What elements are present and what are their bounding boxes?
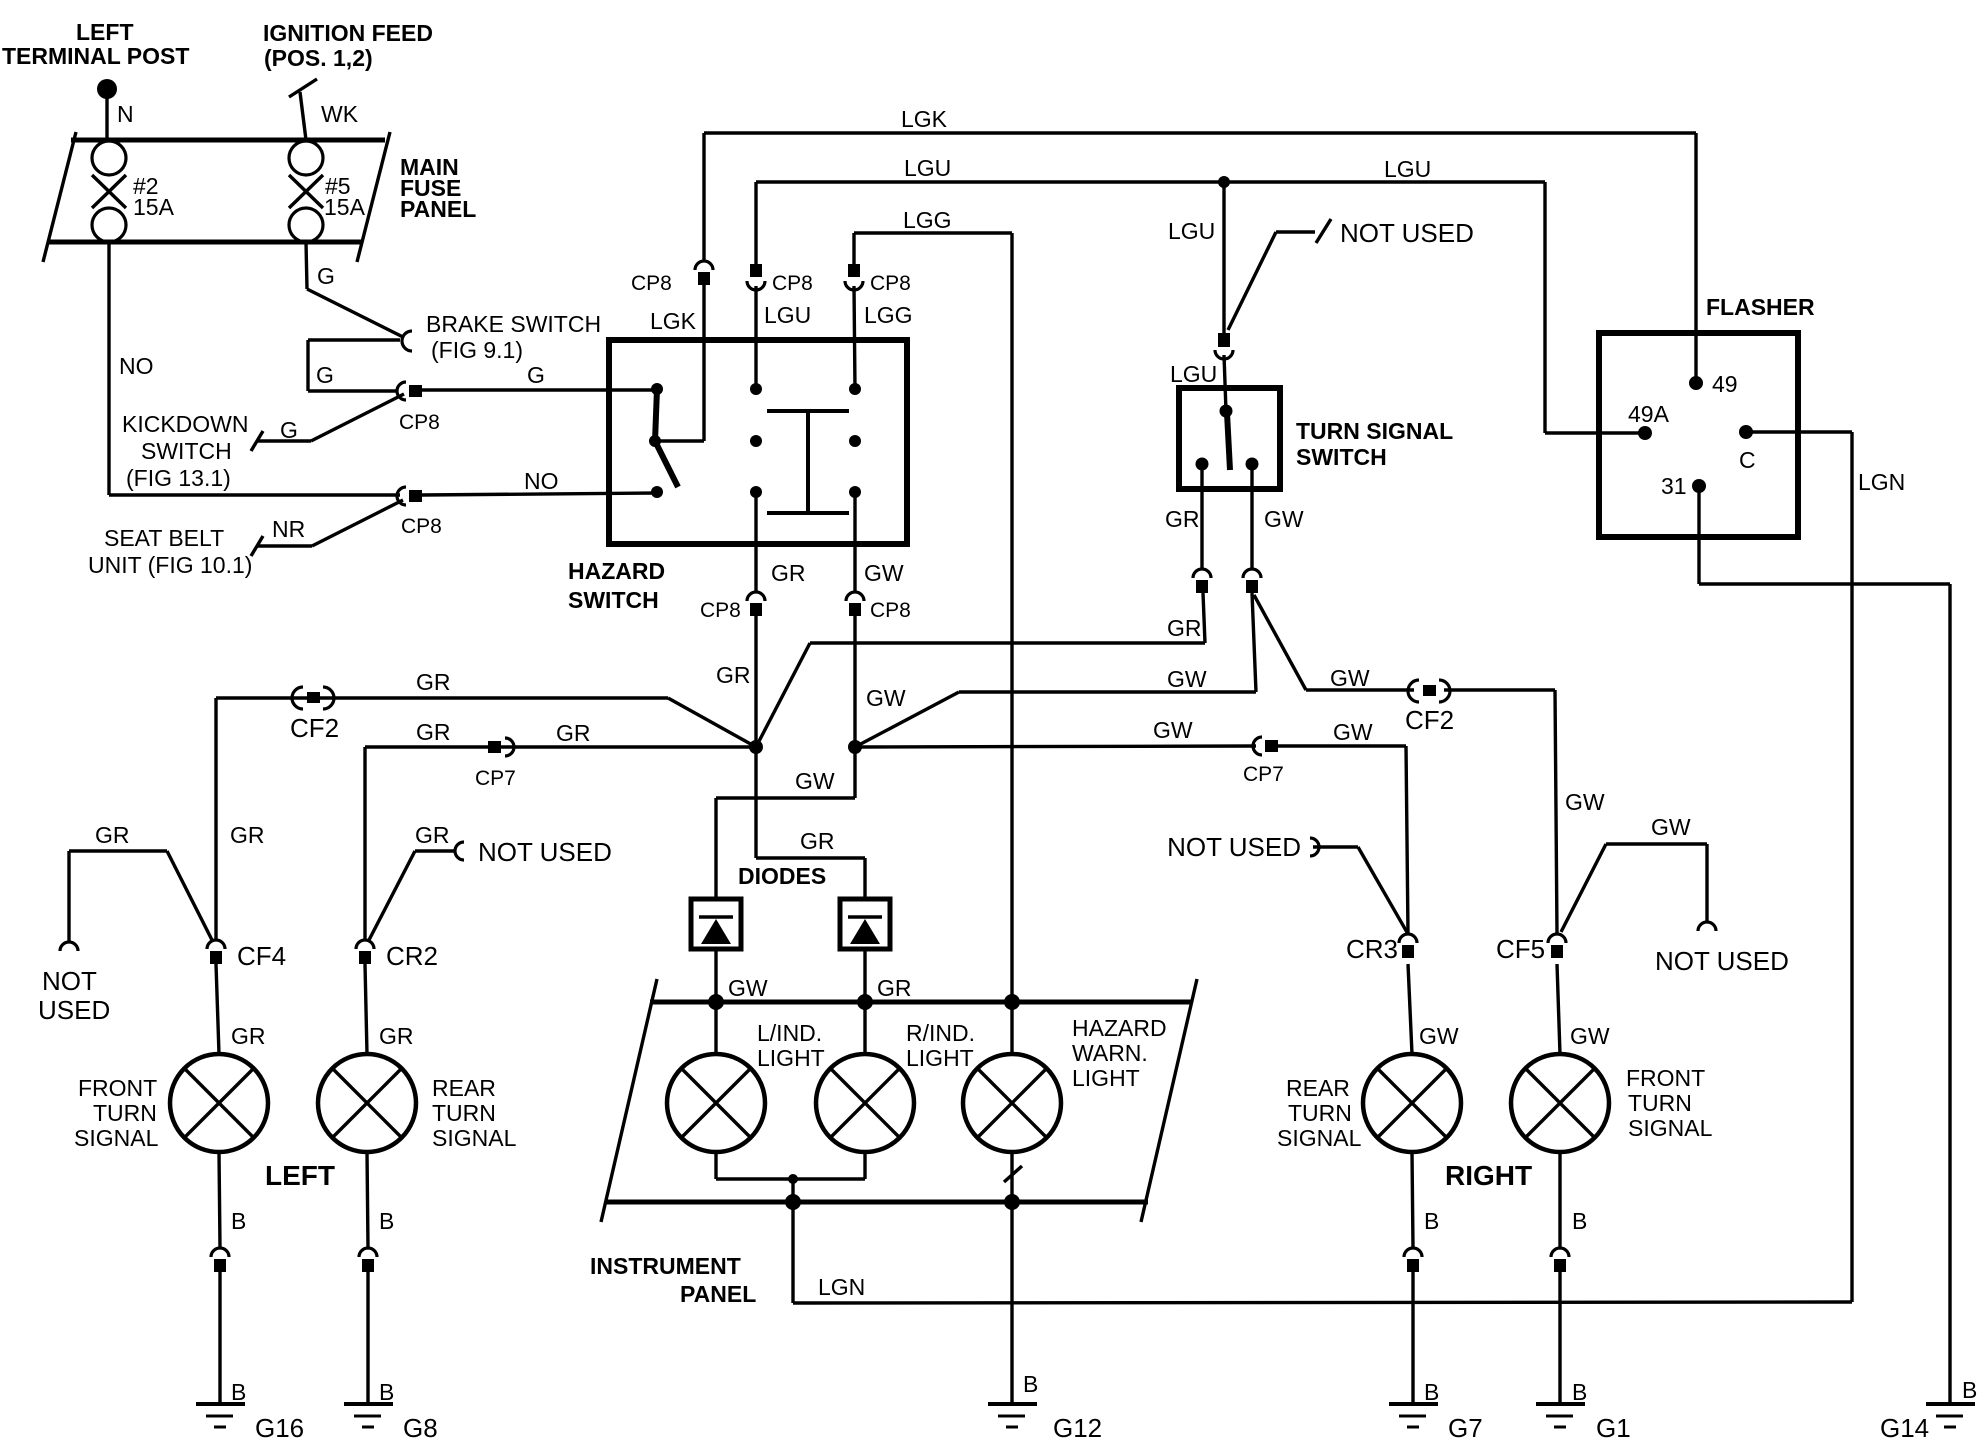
svg-text:TERMINAL POST: TERMINAL POST xyxy=(2,43,189,69)
svg-text:LGG: LGG xyxy=(864,302,913,328)
svg-text:B: B xyxy=(1572,1379,1587,1405)
wire NO from fuse 2 xyxy=(109,242,400,495)
connector CF5 xyxy=(1496,934,1566,964)
svg-text:15A: 15A xyxy=(133,194,175,220)
svg-text:GW: GW xyxy=(1264,506,1304,532)
wire GW CR3 to right rear lamp xyxy=(1408,964,1412,1054)
svg-text:GR: GR xyxy=(716,662,751,688)
wire LGN panel to flasher C xyxy=(793,1202,1852,1303)
hazard switch box xyxy=(609,340,907,544)
svg-text:15A: 15A xyxy=(324,194,366,220)
fuse #2 15A xyxy=(92,141,175,242)
svg-text:GW: GW xyxy=(728,975,768,1001)
svg-text:CP7: CP7 xyxy=(1243,763,1284,786)
wire B to ground G7 xyxy=(1411,1272,1414,1404)
svg-text:B: B xyxy=(1572,1208,1587,1234)
connector CP8 on LGK xyxy=(631,261,713,295)
svg-text:PANEL: PANEL xyxy=(400,196,476,222)
connector on right front B xyxy=(1551,1248,1569,1272)
svg-text:B: B xyxy=(1962,1377,1977,1403)
wire B to ground G8 xyxy=(366,1272,369,1404)
left terminal post xyxy=(97,79,117,99)
hazard switch contacts right column xyxy=(849,383,861,498)
svg-text:NOT USED: NOT USED xyxy=(478,837,612,867)
svg-text:CR2: CR2 xyxy=(386,941,438,971)
ground G12 xyxy=(988,1404,1102,1440)
wire LGU into turn signal switch xyxy=(1224,355,1226,411)
svg-text:CP8: CP8 xyxy=(700,599,741,622)
MAIN FUSE PANEL label xyxy=(400,154,476,222)
svg-text:UNIT (FIG 10.1): UNIT (FIG 10.1) xyxy=(88,552,252,578)
svg-text:SIGNAL: SIGNAL xyxy=(1277,1125,1362,1151)
INSTRUMENT PANEL label xyxy=(590,1253,756,1307)
svg-text:FRONT: FRONT xyxy=(78,1075,157,1101)
wire LGU drop to turn signal switch xyxy=(1222,182,1225,333)
wire B right rear lamp down xyxy=(1412,1152,1413,1248)
lamp right rear turn signal xyxy=(1363,1054,1461,1152)
node LGG at panel xyxy=(1004,994,1020,1010)
wire GW turn signal branch right to CF2 xyxy=(1254,595,1414,690)
svg-text:LEFT: LEFT xyxy=(265,1160,335,1191)
svg-text:FRONT: FRONT xyxy=(1626,1065,1705,1091)
svg-text:GR: GR xyxy=(877,975,912,1001)
svg-text:FLASHER: FLASHER xyxy=(1706,294,1815,320)
svg-text:NO: NO xyxy=(119,353,154,379)
wire GR CP7 to rear lamp drop xyxy=(365,745,488,748)
wire B to ground G16 xyxy=(218,1272,221,1404)
lamp right front turn signal xyxy=(1511,1054,1609,1152)
kickdown switch stub xyxy=(251,394,404,451)
svg-text:CP7: CP7 xyxy=(475,767,516,790)
svg-text:CF2: CF2 xyxy=(290,713,339,743)
svg-text:CP8: CP8 xyxy=(399,411,440,434)
svg-text:LIGHT: LIGHT xyxy=(906,1045,974,1071)
svg-text:N: N xyxy=(117,101,134,127)
svg-text:LEFT: LEFT xyxy=(76,19,134,45)
turn signal NOT USED stub xyxy=(1228,218,1474,330)
TURN SIGNAL SWITCH label xyxy=(1296,418,1453,470)
wire GW diode 1 to panel xyxy=(714,949,717,1002)
wire GW to junction xyxy=(853,616,856,747)
node LGU junction xyxy=(1218,176,1230,188)
svg-text:B: B xyxy=(379,1379,394,1405)
svg-text:GW: GW xyxy=(1419,1023,1459,1049)
svg-text:GW: GW xyxy=(1153,717,1193,743)
svg-text:NOT USED: NOT USED xyxy=(1167,832,1301,862)
wire GW CF5 to right front lamp xyxy=(1557,964,1560,1054)
svg-text:CP8: CP8 xyxy=(401,515,442,538)
svg-text:GR: GR xyxy=(230,822,265,848)
svg-text:G: G xyxy=(527,362,545,388)
svg-text:NO: NO xyxy=(524,468,559,494)
svg-text:NOT USED: NOT USED xyxy=(1340,218,1474,248)
wire B left rear lamp down xyxy=(367,1152,368,1248)
connector CP8 on hazard GR xyxy=(700,592,765,622)
wire hazard lamp to panel edge xyxy=(1004,1152,1022,1202)
connector CR2 xyxy=(356,940,438,971)
svg-text:GR: GR xyxy=(231,1023,266,1049)
svg-text:LGK: LGK xyxy=(901,106,948,132)
svg-text:B: B xyxy=(1023,1371,1038,1397)
svg-text:GR: GR xyxy=(95,822,130,848)
wire GR CR2 to left rear lamp xyxy=(365,964,367,1054)
svg-text:GR: GR xyxy=(415,822,450,848)
svg-text:CF4: CF4 xyxy=(237,941,286,971)
wire N terminal post to fuse panel xyxy=(105,97,108,140)
turn signal switch box xyxy=(1179,388,1280,489)
svg-text:G: G xyxy=(316,362,334,388)
svg-text:B: B xyxy=(231,1379,246,1405)
svg-text:LIGHT: LIGHT xyxy=(1072,1065,1140,1091)
wire GR to left CF2 xyxy=(216,698,756,747)
wire LGK top bus xyxy=(704,133,1696,261)
CR3 NOT USED stub xyxy=(1167,832,1408,934)
wire GW turn signal branch left xyxy=(855,593,1256,747)
svg-text:SIGNAL: SIGNAL xyxy=(74,1125,159,1151)
svg-text:SIGNAL: SIGNAL xyxy=(1628,1115,1713,1141)
connector CP8 on hazard GW xyxy=(846,592,911,622)
ground G14 xyxy=(1880,1404,1975,1440)
svg-text:SWITCH: SWITCH xyxy=(568,587,659,613)
svg-text:GR: GR xyxy=(1167,615,1202,641)
FRONT TURN SIGNAL label xyxy=(74,1075,159,1151)
fuse #5 15A xyxy=(289,141,366,242)
flasher pin 49 xyxy=(1689,133,1738,397)
svg-text:G7: G7 xyxy=(1448,1413,1483,1440)
svg-text:GW: GW xyxy=(1651,814,1691,840)
wire LGU top bus xyxy=(756,180,1545,183)
SEAT BELT UNIT label xyxy=(88,525,252,578)
REAR TURN SIGNAL label xyxy=(1277,1075,1362,1151)
lamp left front turn signal xyxy=(170,1054,268,1152)
connector CP7 right xyxy=(1243,737,1284,786)
svg-text:GR: GR xyxy=(379,1023,414,1049)
svg-text:GR: GR xyxy=(800,828,835,854)
svg-text:IGNITION FEED: IGNITION FEED xyxy=(263,20,433,46)
wire LGN from flasher C xyxy=(1746,432,1852,1302)
svg-text:CP8: CP8 xyxy=(870,272,911,295)
wire B to ground G1 xyxy=(1558,1272,1561,1404)
hazard switch actuator I-bar xyxy=(767,411,849,513)
svg-text:GR: GR xyxy=(771,560,806,586)
turn signal switch contacts and lever xyxy=(1196,405,1259,471)
wire LGU drop to hazard xyxy=(754,182,757,266)
svg-text:B: B xyxy=(1424,1379,1439,1405)
svg-text:NOT: NOT xyxy=(42,966,97,996)
lamp left rear turn signal xyxy=(318,1054,416,1152)
brake switch connector stub xyxy=(402,331,412,351)
wire B left front lamp down xyxy=(219,1152,220,1248)
svg-text:G: G xyxy=(280,417,298,443)
svg-text:GW: GW xyxy=(864,560,904,586)
svg-text:G: G xyxy=(317,263,335,289)
svg-text:G16: G16 xyxy=(255,1413,304,1440)
svg-text:GW: GW xyxy=(1565,789,1605,815)
wire GR drop to CR2 xyxy=(363,747,366,940)
wire GW from turn signal switch xyxy=(1250,464,1253,569)
wire G loop brake to CP8 xyxy=(308,340,400,391)
svg-text:CP8: CP8 xyxy=(870,599,911,622)
svg-text:LGU: LGU xyxy=(1168,218,1215,244)
wire GR drop to CF4 xyxy=(214,698,217,940)
node hazard ground at panel edge xyxy=(1004,1194,1020,1210)
wire GW junction to right CP7 xyxy=(855,746,1256,747)
node GR at panel xyxy=(857,994,873,1010)
svg-text:SIGNAL: SIGNAL xyxy=(432,1125,517,1151)
svg-text:BRAKE SWITCH: BRAKE SWITCH xyxy=(426,311,601,337)
svg-text:(FIG 9.1): (FIG 9.1) xyxy=(431,337,523,363)
svg-text:GW: GW xyxy=(1330,665,1370,691)
svg-text:CF2: CF2 xyxy=(1405,705,1454,735)
connector CP8 on LGU xyxy=(747,264,813,295)
wire GW hazard output xyxy=(853,492,856,592)
svg-text:GR: GR xyxy=(416,719,451,745)
connector CF4 xyxy=(207,940,286,971)
connector CP8 on G wire xyxy=(397,382,440,434)
wire LGG into hazard switch xyxy=(854,286,855,389)
wire GW junction down to diode 1 xyxy=(716,747,855,899)
lamp R/IND light xyxy=(816,1002,975,1152)
svg-text:REAR: REAR xyxy=(432,1075,496,1101)
diode D1 xyxy=(691,899,741,949)
BRAKE SWITCH label xyxy=(426,311,601,363)
connector CF2 left xyxy=(290,687,339,743)
wire indicator lamps to panel ground bus xyxy=(716,1152,865,1202)
lamp hazard warning light xyxy=(963,1002,1167,1152)
flasher pin 31 xyxy=(1661,473,1706,499)
wire G to hazard switch xyxy=(422,388,657,391)
wire B panel to ground G12 xyxy=(1010,1202,1013,1404)
svg-text:SWITCH: SWITCH xyxy=(141,438,232,464)
main fuse panel outline xyxy=(43,132,390,262)
wire GW CP7 to CR3 drop xyxy=(1278,746,1408,934)
wire from flasher 31 to G14 xyxy=(1699,486,1950,1404)
svg-text:CR3: CR3 xyxy=(1346,934,1398,964)
diode D2 xyxy=(840,899,890,949)
svg-text:HAZARD: HAZARD xyxy=(1072,1015,1167,1041)
svg-text:LGU: LGU xyxy=(1170,361,1217,387)
connector on right rear B xyxy=(1404,1248,1422,1272)
ground G16 xyxy=(196,1404,304,1440)
wire GR junction down to diode 2 xyxy=(756,747,865,899)
FRONT TURN SIGNAL label xyxy=(1626,1065,1713,1141)
seat belt unit stub xyxy=(251,500,403,556)
svg-text:GR: GR xyxy=(416,669,451,695)
wire LGK into hazard switch xyxy=(655,285,704,441)
svg-text:LGN: LGN xyxy=(1858,469,1905,495)
lamp L/IND light xyxy=(667,1002,825,1152)
wire GR hazard output xyxy=(754,492,757,592)
svg-text:CP8: CP8 xyxy=(631,272,672,295)
svg-text:HAZARD: HAZARD xyxy=(568,558,665,584)
svg-text:GW: GW xyxy=(1333,719,1373,745)
node LEFT TERMINAL POST label xyxy=(2,19,189,69)
ground G8 xyxy=(344,1404,438,1440)
svg-text:TURN SIGNAL: TURN SIGNAL xyxy=(1296,418,1453,444)
svg-text:TURN: TURN xyxy=(1628,1090,1692,1116)
svg-text:NOT USED: NOT USED xyxy=(1655,946,1789,976)
connector on LGU at turn signal switch xyxy=(1215,333,1233,359)
flasher box xyxy=(1599,333,1798,537)
svg-text:WARN.: WARN. xyxy=(1072,1040,1148,1066)
svg-text:31: 31 xyxy=(1661,473,1687,499)
svg-text:GW: GW xyxy=(866,685,906,711)
wire B right front lamp down xyxy=(1558,1152,1561,1248)
connector CP8 on NO wire xyxy=(397,487,442,538)
connector on left front B xyxy=(211,1248,229,1272)
svg-text:LGU: LGU xyxy=(904,155,951,181)
left front NOT USED stub xyxy=(38,822,212,1025)
svg-text:LGG: LGG xyxy=(903,207,952,233)
wire GR to junction xyxy=(754,616,757,747)
node GW at panel xyxy=(708,994,724,1010)
ground G7 xyxy=(1389,1404,1483,1440)
svg-text:CP8: CP8 xyxy=(772,272,813,295)
svg-text:LGK: LGK xyxy=(650,308,697,334)
wire GW CF2 to CF5 xyxy=(1444,690,1557,934)
svg-text:NR: NR xyxy=(272,516,305,542)
svg-text:R/IND.: R/IND. xyxy=(906,1020,975,1046)
svg-text:REAR: REAR xyxy=(1286,1075,1350,1101)
node IGNITION FEED label xyxy=(263,20,433,71)
svg-text:GW: GW xyxy=(1570,1023,1610,1049)
instrument panel outline xyxy=(601,979,1197,1222)
svg-text:GR: GR xyxy=(556,720,591,746)
ground G1 xyxy=(1536,1404,1631,1440)
HAZARD SWITCH label xyxy=(568,558,665,613)
left rear NOT USED stub xyxy=(369,822,612,940)
svg-text:G12: G12 xyxy=(1053,1413,1102,1440)
svg-text:GW: GW xyxy=(1167,666,1207,692)
wire WK ignition feed xyxy=(289,79,317,140)
svg-text:DIODES: DIODES xyxy=(738,863,826,889)
wire GR turn signal to junction xyxy=(756,593,1205,747)
REAR TURN SIGNAL label xyxy=(432,1075,517,1151)
wire NO to hazard switch xyxy=(422,493,657,495)
connector CR3 xyxy=(1346,934,1417,964)
node LGN at panel edge xyxy=(785,1194,801,1210)
flasher pin 49A xyxy=(1545,182,1670,440)
svg-text:LIGHT: LIGHT xyxy=(757,1045,825,1071)
wire GR from turn signal switch xyxy=(1200,464,1203,569)
svg-text:G14: G14 xyxy=(1880,1413,1929,1440)
svg-text:INSTRUMENT: INSTRUMENT xyxy=(590,1253,741,1279)
hazard switch contacts middle column xyxy=(750,383,762,498)
KICKDOWN SWITCH label xyxy=(122,411,249,491)
connector CF2 right xyxy=(1405,680,1454,735)
wire GR diode 2 to panel xyxy=(863,949,866,1002)
svg-text:B: B xyxy=(379,1208,394,1234)
svg-text:KICKDOWN: KICKDOWN xyxy=(122,411,249,437)
connector on turn signal GR xyxy=(1193,569,1211,593)
CF5 NOT USED stub xyxy=(1561,814,1789,976)
wire GR to left CP7 xyxy=(497,745,756,748)
connector CP7 left xyxy=(475,738,516,790)
connector on turn signal GW xyxy=(1243,569,1261,593)
svg-text:B: B xyxy=(231,1208,246,1234)
svg-text:CF5: CF5 xyxy=(1496,934,1545,964)
svg-text:PANEL: PANEL xyxy=(680,1281,756,1307)
connector on left rear B xyxy=(359,1248,377,1272)
svg-text:WK: WK xyxy=(321,101,359,127)
svg-text:GW: GW xyxy=(795,768,835,794)
svg-text:G1: G1 xyxy=(1596,1413,1631,1440)
svg-text:LGN: LGN xyxy=(818,1274,865,1300)
connector CP8 on LGG xyxy=(845,264,911,295)
svg-text:SEAT BELT: SEAT BELT xyxy=(104,525,224,551)
svg-text:49A: 49A xyxy=(1628,401,1670,427)
wire G from fuse 5 to brake switch xyxy=(306,242,403,337)
svg-text:USED: USED xyxy=(38,995,110,1025)
svg-text:49: 49 xyxy=(1712,371,1738,397)
svg-text:LGU: LGU xyxy=(764,302,811,328)
wire LGG loop to instrument panel xyxy=(854,233,1012,1002)
svg-text:G8: G8 xyxy=(403,1413,438,1440)
svg-text:(FIG 13.1): (FIG 13.1) xyxy=(126,465,231,491)
flasher pin C xyxy=(1739,425,1756,473)
svg-text:L/IND.: L/IND. xyxy=(757,1020,822,1046)
wire LGU into hazard switch xyxy=(754,286,757,389)
svg-text:SWITCH: SWITCH xyxy=(1296,444,1387,470)
node GR junction xyxy=(749,740,763,754)
wire GR CF4 to left front lamp xyxy=(216,964,219,1054)
svg-text:RIGHT: RIGHT xyxy=(1445,1160,1532,1191)
svg-text:GR: GR xyxy=(1165,506,1200,532)
hazard switch contacts left column xyxy=(649,383,663,498)
svg-text:TURN: TURN xyxy=(432,1100,496,1126)
svg-text:(POS. 1,2): (POS. 1,2) xyxy=(264,45,373,71)
node GW junction xyxy=(848,740,862,754)
svg-text:LGU: LGU xyxy=(1384,156,1431,182)
svg-text:TURN: TURN xyxy=(1288,1100,1352,1126)
svg-text:TURN: TURN xyxy=(93,1100,157,1126)
svg-text:B: B xyxy=(1424,1208,1439,1234)
hazard switch lever xyxy=(655,389,678,487)
svg-text:C: C xyxy=(1739,447,1756,473)
